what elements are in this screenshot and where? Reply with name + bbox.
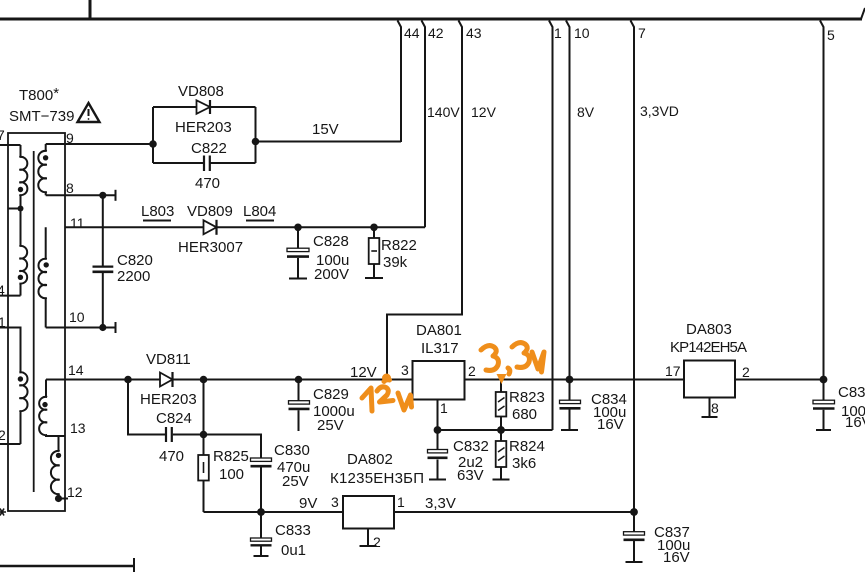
wire pin4 [0, 295, 21, 297]
svg-text:200V: 200V [314, 266, 349, 283]
svg-text:11: 11 [70, 215, 85, 231]
svg-text:15V: 15V [312, 121, 339, 138]
C833 bottom terminator bar [254, 555, 269, 557]
svg-text:43: 43 [466, 25, 482, 41]
wire 12V rail pin14 to DA801 pin3 [65, 379, 413, 381]
wire pin14 out of box [46, 379, 65, 381]
pin 7 lead [631, 21, 635, 513]
svg-text:L803: L803 [141, 203, 174, 220]
svg-text:17: 17 [665, 363, 681, 379]
svg-text:16V: 16V [845, 414, 865, 431]
svg-text:HER203: HER203 [175, 119, 232, 136]
wire R822 bottom stub [373, 264, 375, 278]
wire C836 bottom stem [823, 410, 825, 430]
IC DA801 box [413, 361, 465, 400]
node DA801 adj junction [434, 426, 442, 434]
svg-text:3: 3 [331, 494, 339, 510]
capacitor C837 (electrolytic) [624, 532, 645, 540]
node C834/pin10 junction [566, 376, 574, 384]
C837 bottom terminator bar [626, 561, 643, 563]
svg-text:16V: 16V [597, 416, 624, 433]
svg-text:DA803: DA803 [686, 321, 732, 338]
svg-text:SMT−739: SMT−739 [9, 108, 74, 125]
node R823/R824 junction [497, 426, 505, 434]
capacitor C833 (electrolytic) [251, 538, 272, 545]
secondary winding SB (pin11-pin10) [38, 227, 46, 327]
svg-text:0u1: 0u1 [281, 542, 306, 559]
svg-text:2: 2 [373, 534, 381, 550]
wire C829 bottom stem [298, 410, 300, 431]
secondary winding SD (pin13-pin12) [51, 436, 60, 499]
wire R823 top stub [500, 380, 502, 393]
svg-text:5: 5 [827, 27, 835, 43]
wire DA803 pin8 stub [709, 398, 711, 418]
node pin10/C820 junction [99, 324, 106, 331]
warning triangle symbol [78, 103, 100, 122]
P1 lower polarity dot [18, 275, 23, 280]
node R822 junction [370, 224, 378, 232]
IC DA803 box [684, 361, 735, 398]
SD polarity dot [56, 453, 61, 458]
wire pin12 stub [59, 498, 69, 500]
wire pin7 to primary winding [0, 144, 21, 146]
svg-text:12V: 12V [350, 364, 377, 381]
wire VD808 box left vertical [152, 107, 154, 163]
node C833 junction [257, 508, 265, 516]
svg-text:VD809: VD809 [187, 203, 233, 220]
svg-text:39k: 39k [383, 254, 408, 271]
DA802 pin2 terminator bar [360, 545, 377, 547]
C828 bottom terminator bar [289, 278, 307, 280]
svg-text:100: 100 [219, 466, 244, 483]
SC polarity dot [42, 402, 47, 407]
capacitor C836 (electrolytic, right edge) [813, 400, 835, 408]
wire C832 top stem [437, 430, 439, 450]
svg-text:3,3VD: 3,3VD [640, 103, 679, 119]
pin 1 lead [549, 21, 553, 431]
svg-text:VD811: VD811 [146, 351, 191, 368]
svg-text:L804: L804 [243, 203, 276, 220]
wire C836 top stem [823, 380, 825, 401]
wire R822 top stub [373, 227, 375, 238]
orange annotation dot at 12V junction [382, 374, 391, 383]
wire C834 bottom stem [569, 410, 571, 430]
wire C832 bottom stem [437, 460, 439, 480]
node VD808 box right [252, 138, 260, 146]
tap junction dot [18, 206, 24, 212]
wire DA801 pin1 stub [437, 400, 439, 431]
primary winding P1 lower (tap-pin4) [19, 246, 27, 296]
svg-text:2: 2 [468, 363, 476, 379]
pin 44 lead [398, 21, 402, 143]
wire DA802 output 3,3V rail [394, 511, 634, 513]
wire C829 top stem [298, 380, 300, 401]
svg-text:1: 1 [554, 25, 562, 41]
node C829 junction [295, 376, 303, 384]
svg-text:7: 7 [638, 25, 646, 41]
svg-text:C820: C820 [117, 252, 153, 269]
svg-text:C830: C830 [274, 442, 310, 459]
svg-text:42: 42 [428, 25, 444, 41]
wire adjust rail [438, 429, 553, 431]
wire 15V to pin44 [256, 141, 402, 143]
svg-text:680: 680 [512, 406, 537, 423]
svg-text:К1235ЕН3БП: К1235ЕН3БП [330, 470, 424, 487]
pin 10 lead [566, 21, 570, 380]
svg-text:9V: 9V [299, 495, 317, 512]
svg-text:2200: 2200 [117, 268, 150, 285]
orange handwritten 12v [362, 380, 412, 412]
wire R823 bottom stub [500, 417, 502, 431]
capacitor C822 [204, 156, 210, 172]
node C828 junction [294, 224, 302, 232]
svg-text:R825: R825 [213, 448, 249, 465]
svg-text:2: 2 [742, 364, 750, 380]
DA803 pin8 terminator bar [702, 416, 718, 418]
wire VD808 top branch [153, 106, 256, 108]
bottom-left frame tick [133, 558, 135, 572]
R824 bottom terminator bar [493, 479, 510, 481]
wire pin11 to VD809 [65, 226, 204, 228]
wire C837 bottom stem [633, 541, 635, 562]
svg-text:R824: R824 [509, 438, 545, 455]
SA polarity dot [43, 155, 48, 160]
svg-text:R823: R823 [509, 389, 545, 406]
svg-text:HER3007: HER3007 [178, 239, 243, 256]
wire 9V rail [204, 511, 344, 513]
wire DA802 pin2 stub [367, 529, 369, 546]
svg-text:3k6: 3k6 [512, 455, 536, 472]
svg-text:1: 1 [397, 494, 405, 510]
secondary winding SA (pin9-pin8) [38, 144, 47, 195]
wire C824 loop left [128, 380, 165, 435]
svg-text:16V: 16V [663, 549, 690, 566]
transformer core lines [33, 151, 35, 492]
svg-text:470: 470 [195, 175, 220, 192]
svg-text:C828: C828 [313, 233, 349, 250]
diode VD809 [204, 220, 217, 235]
svg-text:44: 44 [404, 25, 420, 41]
transformer bottom-left star mark [0, 509, 6, 516]
diode VD808 [197, 100, 211, 114]
wire C820 vertical [102, 195, 104, 266]
wire C837 top stem [633, 512, 635, 532]
resistor R823 [496, 392, 507, 417]
svg-text:14: 14 [68, 362, 84, 378]
primary winding P2 (pin1-pin2) [19, 372, 27, 444]
wire R825 bottom to 9V rail [203, 481, 205, 513]
wire VD808 box right vertical [255, 107, 257, 163]
resistor R824 [496, 441, 507, 467]
svg-text:C833: C833 [275, 522, 311, 539]
L803 underline [143, 220, 171, 222]
capacitor C832 [428, 450, 448, 458]
wire C820 to pin10 wire [102, 273, 104, 328]
svg-text:25V: 25V [317, 417, 344, 434]
wire 140V rail to pin42 [217, 226, 426, 228]
wire pin9 to VD808 box [65, 143, 153, 145]
wire C830 branch [204, 435, 262, 459]
C832 bottom terminator bar [429, 479, 446, 481]
node pin5/C836 junction [820, 376, 828, 384]
svg-text:12V: 12V [471, 104, 497, 120]
tap wire to box edge [8, 208, 21, 210]
P2 polarity dot [18, 376, 23, 381]
transformer T800 outline box [8, 133, 65, 511]
svg-text:C824: C824 [156, 410, 192, 427]
svg-text:HER203: HER203 [140, 391, 197, 408]
resistor R822 [369, 238, 380, 264]
orange arrowhead pointing to 3,3V rail [497, 374, 507, 384]
bottom-left frame line [0, 565, 134, 568]
wire C824 loop right [173, 380, 204, 456]
P1 polarity dot [18, 187, 23, 192]
capacitor C820 [93, 267, 114, 272]
wire C834 top stem [569, 380, 571, 401]
wire pin8 out to stub [46, 194, 116, 196]
svg-text:R822: R822 [381, 237, 417, 254]
C836 bottom terminator bar [816, 429, 831, 431]
svg-text:25V: 25V [282, 473, 309, 490]
L804 underline [246, 220, 274, 222]
svg-text:C829: C829 [313, 386, 349, 403]
C834 bottom terminator bar [561, 429, 578, 431]
svg-text:10: 10 [574, 25, 590, 41]
svg-text:8: 8 [711, 400, 719, 416]
pin10 stub tick [115, 322, 117, 333]
svg-text:2: 2 [0, 427, 6, 443]
svg-text:3,3V: 3,3V [425, 495, 456, 512]
svg-text:140V: 140V [427, 104, 460, 120]
svg-text:8V: 8V [577, 104, 595, 120]
svg-text:470: 470 [159, 448, 184, 465]
pin 43 lead [387, 21, 462, 380]
node VD811 anode branch [124, 376, 132, 384]
top frame end tick (right corner) [861, 8, 865, 19]
wire pin1 to winding P2 [0, 328, 21, 373]
wire pin9 out of box [46, 143, 65, 145]
resistor R825 [198, 455, 209, 481]
top border frame line [0, 18, 862, 21]
R822 bottom terminator bar [365, 277, 383, 279]
wire DA801 output rail to pin5 [465, 379, 824, 381]
wire C828 top stem [297, 227, 299, 248]
svg-text:C832: C832 [453, 438, 489, 455]
capacitor C829 (electrolytic) [289, 401, 310, 409]
svg-text:KP142EH5A: KP142EH5A [670, 339, 747, 356]
svg-text:C83: C83 [838, 384, 865, 401]
svg-text:12: 12 [67, 484, 83, 500]
svg-text:10: 10 [69, 309, 85, 325]
node C824/R825/C830 junction [200, 431, 208, 439]
node pin8/C820 junction [99, 192, 106, 199]
SB polarity dot [44, 262, 49, 267]
capacitor C834 (electrolytic) [560, 400, 581, 408]
IC DA802 box [343, 496, 394, 529]
wire pin10 out to stub [46, 327, 116, 329]
wire C833 top stem [260, 512, 262, 538]
wire VD808 box bottom branch [153, 162, 256, 164]
pin 42 lead [422, 21, 426, 228]
svg-text:3: 3 [401, 362, 409, 378]
capacitor C828 (electrolytic) [287, 248, 309, 256]
svg-text:DA801: DA801 [416, 322, 462, 339]
primary winding P1 upper (pin7-tap) [19, 145, 27, 246]
diode VD811 [160, 372, 173, 387]
svg-text:T800*: T800* [19, 85, 59, 104]
wire pin13 out of box [59, 435, 66, 437]
svg-text:VD808: VD808 [178, 83, 224, 100]
orange handwritten 3,3v with arrow [481, 343, 544, 374]
wire R824 top stub [500, 430, 502, 441]
svg-text:DA802: DA802 [347, 451, 393, 468]
node VD808 box left [149, 140, 157, 148]
wire pin2 [0, 443, 21, 445]
wire C830 bottom stem [260, 468, 262, 513]
node VD811 cathode branch [200, 376, 208, 384]
node 3,3V/pin7/C837 junction [630, 508, 638, 516]
wire C833 bottom stem [260, 547, 262, 556]
svg-text:IL317: IL317 [421, 340, 459, 357]
svg-text:C822: C822 [191, 140, 227, 157]
node pin12 junction dot [55, 495, 62, 502]
wire R824 bottom stub [500, 467, 502, 479]
capacitor C830 (electrolytic) [251, 458, 272, 466]
svg-text:8: 8 [66, 180, 74, 196]
capacitor C824 [166, 427, 172, 442]
svg-text:1: 1 [440, 400, 448, 416]
secondary winding SC (pin14-pin13) [39, 380, 58, 437]
svg-text:63V: 63V [457, 467, 484, 484]
top frame vertical tick [89, 0, 92, 19]
svg-text:7: 7 [0, 127, 5, 143]
wire C828 bottom stem [297, 258, 299, 278]
pin 5 lead [820, 21, 824, 380]
svg-text:13: 13 [70, 420, 86, 436]
pin8 stub tick [115, 190, 117, 201]
